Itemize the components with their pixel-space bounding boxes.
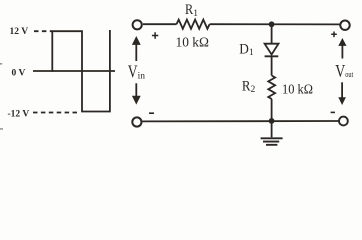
svg-text:Vout: Vout xyxy=(335,61,354,81)
svg-text:0 V: 0 V xyxy=(12,69,26,79)
scan artifact mark (left edge, bottom) xyxy=(0,128,3,130)
input terminal top-left xyxy=(133,20,142,29)
svg-text:Vin: Vin xyxy=(128,61,145,81)
12V dashed reference line xyxy=(34,30,52,32)
wire: junction down to diode xyxy=(271,24,273,43)
output terminal bottom-right xyxy=(339,117,348,126)
bottom wire rail xyxy=(143,120,340,122)
plus sign at Vout top xyxy=(331,32,337,38)
ground stub xyxy=(271,121,273,137)
resistor R2 xyxy=(268,76,275,100)
scan artifact mark (left edge, mid) xyxy=(0,63,2,65)
bottom junction dot xyxy=(269,118,275,124)
ground symbol bars xyxy=(261,138,283,145)
diode D1 xyxy=(265,44,279,57)
svg-text:-12 V: -12 V xyxy=(8,109,30,119)
svg-text:10 kΩ: 10 kΩ xyxy=(176,35,209,50)
svg-text:R2: R2 xyxy=(242,79,256,96)
Vout polarity arrow (up) xyxy=(338,38,346,59)
svg-text:10 kΩ: 10 kΩ xyxy=(282,83,313,98)
time axis (0 V level) xyxy=(33,70,115,72)
output terminal top-right xyxy=(340,21,349,30)
input terminal bottom-left xyxy=(132,117,141,126)
plus sign at Vin top xyxy=(152,32,158,38)
junction node dot (top) xyxy=(269,21,275,27)
Vin polarity arrow (down) xyxy=(132,83,141,104)
Vin polarity arrow (up) xyxy=(132,36,141,61)
Vout polarity arrow (down) xyxy=(338,82,346,105)
svg-text:D1: D1 xyxy=(239,41,254,58)
svg-text:12 V: 12 V xyxy=(10,27,29,37)
minus sign at Vin bottom xyxy=(149,112,154,114)
wire: R2 to bottom rail xyxy=(271,99,273,121)
square wave input trace xyxy=(52,30,110,112)
wire: diode to R2 xyxy=(271,56,273,75)
wire: R1 to top-right terminal xyxy=(210,23,340,25)
resistor R1 xyxy=(177,20,210,29)
svg-text:R1: R1 xyxy=(185,2,198,19)
minus sign at Vout bottom xyxy=(331,111,335,113)
wire: top-left terminal to R1 xyxy=(143,23,177,25)
-12V dashed reference line xyxy=(33,112,80,114)
